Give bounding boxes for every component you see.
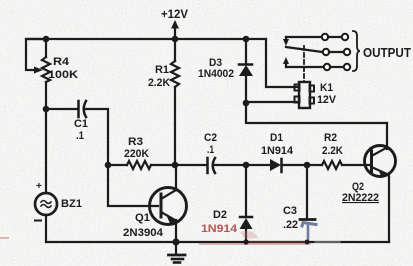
svg-text:C3: C3	[283, 205, 297, 217]
wire D3 node to relay coil lower tab	[246, 101, 299, 103]
node C3 bottom junction	[305, 240, 310, 245]
node R1 top junction	[172, 36, 179, 43]
svg-text:2N3904: 2N3904	[123, 227, 164, 239]
diode D2	[201, 165, 253, 242]
svg-text:Q1: Q1	[135, 212, 150, 224]
node emitter ground junction	[172, 238, 179, 245]
capacitor C1	[74, 101, 88, 142]
svg-text:R3: R3	[128, 136, 143, 148]
relay mechanical link dashed	[303, 46, 305, 82]
svg-text:C1: C1	[74, 118, 88, 130]
transistor Q2	[342, 146, 396, 205]
node D2 junction	[243, 162, 250, 169]
svg-text:R4: R4	[53, 56, 70, 68]
wire base drop to Q1	[108, 165, 158, 206]
svg-text:C2: C2	[204, 132, 217, 144]
wire C1 to base column	[84, 109, 108, 165]
wire C1 node to capacitor	[46, 108, 77, 110]
potentiometer R4	[26, 39, 78, 109]
wire Q1 emitter down	[175, 220, 177, 242]
node D2 bottom junction	[243, 239, 248, 244]
node Q1 collector junction	[172, 162, 179, 169]
output brace	[353, 31, 360, 71]
svg-text:2N2222: 2N2222	[342, 192, 379, 204]
svg-text:1N914: 1N914	[201, 223, 238, 235]
node C3 junction	[304, 162, 311, 169]
diode D1	[246, 132, 307, 172]
wire Q2 emitter down	[388, 175, 390, 242]
ground	[169, 243, 186, 263]
diode D3	[198, 39, 253, 103]
svg-text:K1: K1	[320, 82, 333, 94]
capacitor C2	[204, 132, 217, 173]
transistor Q1	[123, 188, 187, 240]
relay contact row 2 arm	[286, 47, 350, 55]
svg-text:2.2K: 2.2K	[322, 145, 343, 157]
node C1 junction	[43, 106, 50, 113]
svg-text:.1: .1	[76, 130, 84, 142]
wire collector node to C2	[175, 164, 206, 166]
capacitor C3	[283, 165, 316, 241]
wire Q1 collector up	[175, 165, 177, 190]
svg-text:R1: R1	[155, 64, 169, 76]
relay contact row 1	[286, 34, 348, 40]
resistor R1	[148, 39, 179, 165]
relay contact row 3	[286, 64, 350, 70]
svg-text:R2: R2	[324, 132, 337, 144]
resistor R3	[108, 136, 175, 169]
svg-text:BZ1: BZ1	[61, 198, 82, 210]
node R3 left junction	[105, 162, 112, 169]
node top-left junction	[43, 36, 50, 43]
wire C2 to D2 node	[214, 164, 246, 166]
svg-text:.1: .1	[207, 144, 214, 156]
svg-text:D2: D2	[213, 209, 227, 221]
wire C1 node to buzzer	[45, 109, 47, 193]
svg-text:1N4002: 1N4002	[198, 68, 234, 80]
wire buzzer to bottom rail	[45, 215, 47, 242]
wire collector rail from D3	[246, 103, 387, 123]
relay contact pole 2 arrow	[283, 57, 289, 67]
power +12V	[161, 7, 188, 38]
node D3 anode junction	[243, 100, 250, 107]
svg-text:12V: 12V	[317, 94, 337, 106]
svg-text:1N914: 1N914	[261, 145, 294, 157]
wire top rail to relay coil upper tab	[266, 39, 299, 87]
svg-text:+12V: +12V	[161, 7, 188, 21]
wire Q2 collector up	[386, 123, 388, 149]
svg-text:D1: D1	[270, 132, 283, 144]
wire top rail	[26, 38, 266, 40]
svg-text:220K: 220K	[124, 148, 149, 160]
svg-text:100K: 100K	[48, 69, 78, 81]
svg-text:OUTPUT: OUTPUT	[363, 45, 411, 60]
svg-text:+: +	[36, 181, 42, 192]
wire bottom rail	[46, 241, 389, 243]
relay coil K1	[295, 82, 337, 108]
relay contact pole 1 arrow	[283, 37, 289, 46]
svg-text:.22: .22	[283, 219, 298, 231]
svg-text:2.2K: 2.2K	[148, 77, 170, 89]
resistor R2	[307, 132, 371, 169]
node D3 top junction	[243, 36, 250, 43]
buzzer BZ1	[35, 181, 82, 221]
